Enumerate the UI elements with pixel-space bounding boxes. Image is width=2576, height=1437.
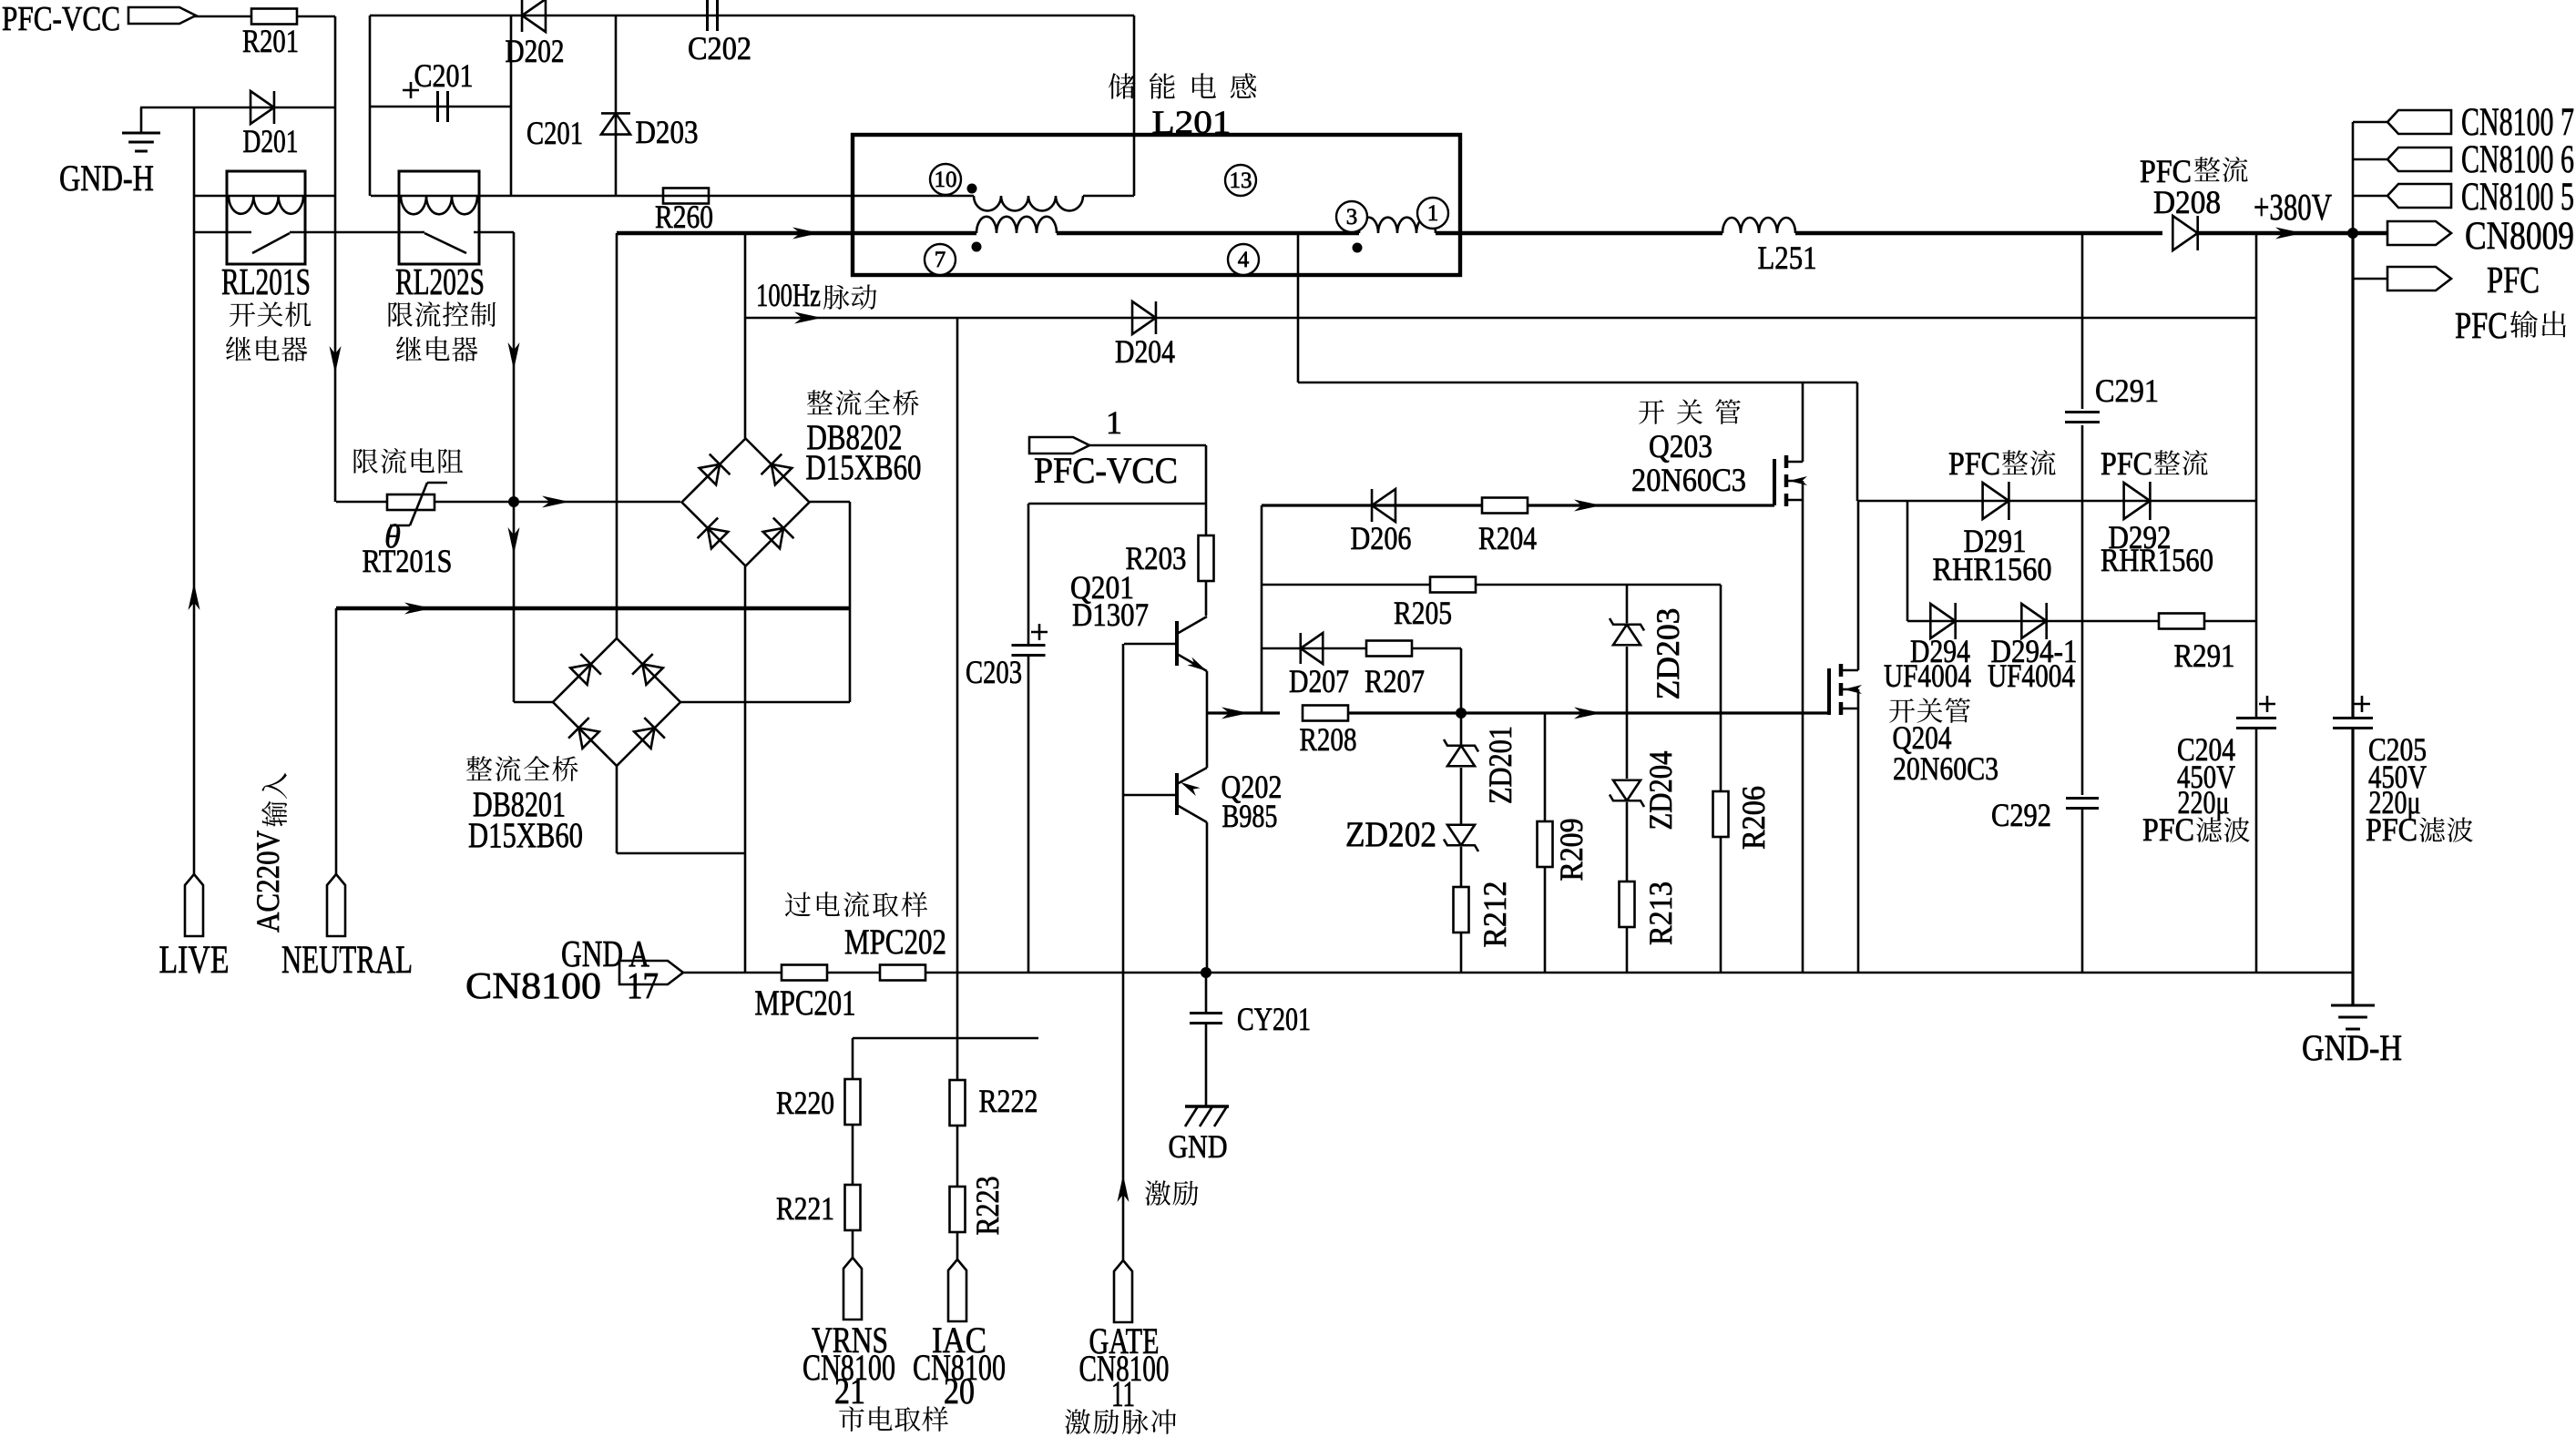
svg-text:R201: R201 — [242, 23, 299, 59]
svg-text:MPC201: MPC201 — [755, 983, 856, 1023]
svg-text:R203: R203 — [1126, 540, 1187, 576]
svg-text:D201: D201 — [243, 123, 299, 159]
svg-text:CN8100: CN8100 — [465, 964, 601, 1006]
svg-text:R208: R208 — [1300, 721, 1357, 758]
svg-text:PFC: PFC — [2455, 304, 2508, 346]
svg-text:11: 11 — [1111, 1373, 1135, 1414]
svg-text:C202: C202 — [688, 30, 751, 66]
svg-text:ZD201: ZD201 — [1482, 726, 1518, 804]
svg-text:D203: D203 — [636, 114, 699, 150]
svg-text:D206: D206 — [1351, 520, 1412, 556]
svg-text:20N60C3: 20N60C3 — [1631, 462, 1746, 498]
svg-text:R222: R222 — [979, 1083, 1038, 1119]
svg-text:L251: L251 — [1758, 239, 1817, 276]
svg-text:1: 1 — [1106, 404, 1122, 441]
svg-text:20N60C3: 20N60C3 — [1893, 750, 1998, 787]
svg-text:D15XB60: D15XB60 — [468, 816, 583, 855]
svg-text:R209: R209 — [1553, 819, 1590, 882]
svg-text:CN8100 5: CN8100 5 — [2461, 176, 2574, 219]
svg-text:B985: B985 — [1222, 798, 1278, 834]
svg-text:R223: R223 — [969, 1177, 1006, 1236]
svg-text:RL201S: RL201S — [221, 260, 311, 302]
svg-text:21: 21 — [834, 1371, 865, 1412]
svg-text:GND: GND — [1169, 1128, 1228, 1165]
svg-text:LIVE: LIVE — [159, 939, 230, 982]
svg-text:NEUTRAL: NEUTRAL — [281, 939, 413, 982]
svg-text:20: 20 — [944, 1371, 975, 1412]
svg-text:4: 4 — [1238, 248, 1250, 272]
svg-text:L201: L201 — [1152, 104, 1232, 140]
svg-text:CN8100 6: CN8100 6 — [2461, 138, 2574, 181]
svg-text:Q203: Q203 — [1649, 428, 1712, 464]
svg-text:UF4004: UF4004 — [1988, 657, 2075, 694]
svg-text:1: 1 — [1427, 201, 1439, 226]
svg-text:R212: R212 — [1477, 882, 1513, 948]
svg-text:RL202S: RL202S — [395, 260, 485, 302]
svg-text:GND-H: GND-H — [59, 158, 154, 199]
svg-text:D202: D202 — [506, 33, 565, 69]
svg-text:3: 3 — [1346, 205, 1358, 229]
svg-text:R220: R220 — [776, 1085, 834, 1121]
svg-text:MPC202: MPC202 — [844, 922, 946, 962]
svg-text:C201: C201 — [526, 115, 583, 151]
svg-text:7: 7 — [935, 248, 946, 272]
svg-text:PFC: PFC — [2101, 445, 2152, 482]
svg-text:C291: C291 — [2095, 372, 2159, 409]
svg-text:R205: R205 — [1394, 595, 1452, 631]
svg-text:GND-H: GND-H — [2302, 1027, 2402, 1068]
svg-text:RHR1560: RHR1560 — [1933, 551, 2052, 587]
svg-text:PFC: PFC — [1948, 445, 2000, 482]
svg-text:PFC: PFC — [2487, 259, 2540, 301]
svg-text:RHR1560: RHR1560 — [2101, 542, 2213, 578]
svg-text:PFC: PFC — [2142, 811, 2194, 848]
svg-text:+380V: +380V — [2254, 186, 2332, 228]
svg-text:C201: C201 — [414, 57, 474, 94]
svg-text:C292: C292 — [1991, 797, 2051, 833]
svg-text:RT201S: RT201S — [363, 543, 453, 579]
svg-text:R291: R291 — [2174, 637, 2235, 674]
svg-text:R221: R221 — [776, 1190, 834, 1227]
svg-text:PFC: PFC — [2366, 811, 2418, 848]
svg-text:R206: R206 — [1735, 786, 1772, 850]
svg-text:10: 10 — [935, 168, 957, 192]
svg-text:R207: R207 — [1365, 663, 1425, 699]
svg-text:100Hz: 100Hz — [756, 277, 821, 313]
svg-text:D207: D207 — [1289, 663, 1349, 699]
svg-text:R204: R204 — [1478, 520, 1537, 556]
svg-text:ZD204: ZD204 — [1642, 751, 1679, 831]
svg-text:ZD203: ZD203 — [1650, 608, 1686, 700]
svg-text:UF4004: UF4004 — [1884, 657, 1971, 694]
svg-text:R260: R260 — [655, 199, 713, 235]
svg-text:D1307: D1307 — [1072, 596, 1149, 633]
svg-text:17: 17 — [627, 964, 659, 1006]
svg-text:R213: R213 — [1642, 882, 1679, 945]
svg-text:CN8100 7: CN8100 7 — [2461, 101, 2574, 144]
svg-text:PFC-VCC: PFC-VCC — [1034, 450, 1178, 491]
svg-text:D15XB60: D15XB60 — [806, 448, 922, 487]
svg-text:13: 13 — [1230, 168, 1252, 193]
svg-text:ZD202: ZD202 — [1345, 815, 1436, 854]
svg-text:AC220V: AC220V — [250, 831, 286, 933]
svg-text:D208: D208 — [2153, 184, 2221, 220]
svg-text:D204: D204 — [1115, 333, 1175, 370]
svg-text:PFC-VCC: PFC-VCC — [2, 0, 120, 38]
svg-text:CN8009: CN8009 — [2465, 215, 2574, 258]
svg-text:CY201: CY201 — [1237, 1001, 1311, 1037]
svg-text:C203: C203 — [966, 654, 1022, 690]
